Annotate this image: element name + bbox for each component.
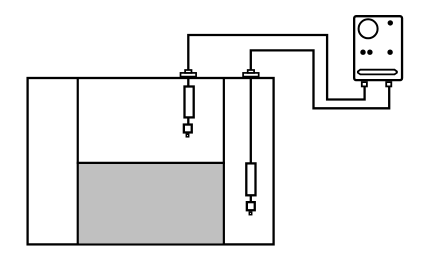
controller indicator LED top right [388,20,393,25]
tank inner wall right [223,78,225,244]
probe LS1 body [185,87,194,118]
probe LS1 gland fitting wide flange [181,73,197,77]
probe LS2 tip [249,212,251,215]
probe LS2 gland fitting wide flange [243,73,259,77]
wire W1 from probe LS1 to controller left terminal [188,35,364,100]
tank outer wall [28,78,274,244]
probe LS2 gland fitting cap [248,70,254,73]
probe LS1 electrode box [184,125,192,133]
tank inner wall left [77,78,79,244]
probe LS1 tip [186,134,188,137]
liquid in tank [77,163,225,244]
controller knob [359,19,378,38]
wire W2 from probe LS2 to controller right terminal [251,50,389,108]
controller label slot [358,70,397,75]
probe LS1 gland fitting cap [185,70,191,73]
controller LED A [360,50,365,55]
controller U1 enclosure [354,16,402,80]
controller LED C [387,50,392,55]
controller terminal T1 [362,82,367,86]
probe LS1 stem [187,77,189,87]
probe LS2 body [246,163,255,195]
probe LS2 neck [250,195,252,202]
controller terminal T2 [386,82,391,86]
probe LS2 rod [250,77,252,163]
probe LS1 neck [187,117,189,124]
probe LS2 electrode box [247,202,255,210]
controller LED B [367,50,372,55]
